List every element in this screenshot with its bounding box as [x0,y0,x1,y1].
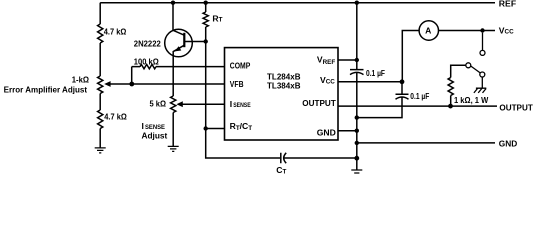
wire VCC pin line [338,81,402,83]
wire left rail top segment [99,3,101,24]
node VREF junction [355,58,359,62]
svg-text:TL384xB: TL384xB [267,81,301,91]
resistor R 4.7k upper [98,24,103,43]
wire emitter [173,45,184,96]
node VCC junction [400,79,405,84]
wire RT to RT/CT [205,27,207,129]
svg-text:0.1 µF: 0.1 µF [410,91,429,101]
ground left [95,148,106,153]
wire base lead [184,41,205,43]
node REF rail / VREF line junction [355,1,359,5]
wire ammeter to Vcc [439,30,496,32]
svg-text:0.1 µF: 0.1 µF [366,68,385,78]
node wiper / 100k junction [129,82,134,87]
switch blade [471,66,481,73]
resistor R 4.7k lower [98,110,103,129]
node RT/CT junction [204,126,208,130]
svg-text:I: I [230,99,232,109]
svg-text:5 kΩ: 5 kΩ [150,99,167,109]
svg-text:COMP: COMP [230,61,251,71]
wire collector [173,3,184,36]
node output / 1k junction [448,104,453,109]
svg-text:GND: GND [499,138,518,148]
wire RT/CT pin [206,128,225,130]
svg-text:OUTPUT: OUTPUT [302,98,336,108]
wire switch throw to 1k [451,65,466,77]
wire left rail mid [99,43,101,76]
node REF rail / RT junction [204,1,208,5]
wire GND rail [357,142,495,144]
wire Isense wiper line [179,103,224,105]
wire CT branch [206,129,280,159]
wire 100k branch vertical [131,67,133,84]
wire left rail to ground [99,129,101,148]
svg-text:2N2222: 2N2222 [134,38,161,48]
potentiometer 5k Isense adjust [171,96,176,113]
chassis ground at switch [474,88,486,93]
node cap2 return junction [355,115,359,119]
wire right rail lower (cap to ground) [356,72,358,170]
IC U1 TL284xB/TL384xB PWM controller [225,48,339,140]
svg-text:GND: GND [317,127,336,137]
ammeter A [402,31,419,82]
svg-text:VFB: VFB [230,79,244,89]
wire OUTPUT rail [338,105,497,107]
wire 5k pot to ground [172,113,174,147]
svg-text:A: A [425,25,431,35]
node GND rail junction [355,141,359,145]
wire VFB wiper line [107,83,225,85]
wire left rail below pot [99,94,101,111]
node CT return junction [354,156,359,161]
transistor base bar [183,33,185,47]
node base junction [204,39,208,43]
svg-text:1 kΩ, 1 W: 1 kΩ, 1 W [454,95,489,105]
pot wiper arrow [104,81,110,87]
wire cap2 return [357,97,402,118]
node Vcc / switch junction [480,28,484,32]
ground 5k pot [168,146,179,151]
wire switch pole stub [481,77,483,88]
emitter arrow [175,46,182,51]
svg-text:I: I [142,121,144,131]
svg-text:Error Amplifier Adjust: Error Amplifier Adjust [4,85,88,95]
node REF rail / collector junction [171,1,175,5]
svg-text:4.7 kΩ: 4.7 kΩ [104,26,127,36]
wire right rail upper (REF to cap) [356,3,358,70]
svg-text:OUTPUT: OUTPUT [499,103,533,113]
resistor 1k 1W [448,78,453,107]
capacitor 0.1uF VREF bypass [350,70,364,75]
capacitor CT [281,153,286,164]
resistor RT [203,3,208,27]
switch S1 [482,33,484,51]
transistor circle [165,29,193,57]
capacitor 0.1uF VCC bypass [396,82,409,99]
node GND pin junction [355,129,359,133]
potentiometer 1-k error amplifier adjust [98,76,103,94]
svg-text:1-kΩ: 1-kΩ [72,75,89,85]
wire GND pin [338,130,357,132]
resistor 100k [132,64,225,68]
ground right rail [351,170,362,173]
svg-text:100 kΩ: 100 kΩ [134,56,159,66]
svg-text:SENSE: SENSE [233,102,251,109]
wire REF top rail [100,2,495,4]
svg-text:Adjust: Adjust [142,131,168,141]
svg-text:REF: REF [499,0,516,8]
wire VREF pin to rail [338,59,357,61]
5k wiper arrow [176,101,182,107]
svg-text:4.7 kΩ: 4.7 kΩ [104,111,127,121]
